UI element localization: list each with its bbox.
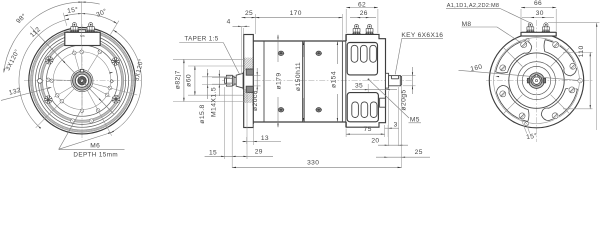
- M6 hole bottom: [80, 109, 84, 113]
- svg-text:62: 62: [358, 2, 366, 9]
- centerline vertical right view: [536, 20, 538, 142]
- dimension M14X1.5: [212, 76, 230, 78]
- dimension 15 deg lower: [522, 120, 527, 134]
- holes on d112 bolt circle: [80, 50, 84, 54]
- flange hub section dark lower: [246, 86, 253, 92]
- small plain bolts lower: [89, 119, 93, 123]
- holes on d132 bolt circle: [98, 50, 102, 54]
- extension radial 58.4: [110, 21, 119, 35]
- washer behind nut: [232, 76, 234, 85]
- body joint line right: [341, 41, 343, 122]
- terminal bolt A middle view: [352, 24, 360, 34]
- small arrow right side: [109, 72, 113, 74]
- dimension d160 diagonal: [459, 70, 579, 80]
- bolt circle d112: [53, 52, 111, 110]
- washer collar at taper end: [243, 72, 246, 89]
- terminal bolt A right view: [526, 23, 534, 32]
- axis centerline: [222, 80, 412, 82]
- dimension 4: [242, 28, 244, 71]
- svg-text:25: 25: [415, 149, 423, 156]
- dimension d179: [277, 35, 279, 62]
- right edge overall dimension: [548, 22, 600, 24]
- threaded shaft tip M14: [225, 78, 227, 83]
- svg-text:110: 110: [578, 45, 585, 57]
- cover latch detail: [380, 98, 386, 107]
- extension radial 90: [81, 1, 83, 32]
- keyway on shaft: [391, 78, 398, 80]
- radial centerlines diagonals: [551, 48, 570, 67]
- dimension 15 thread: [224, 87, 226, 159]
- vent hole position marks: [278, 51, 285, 55]
- dimension d60: [188, 65, 243, 67]
- dimension arc 3X120 left: [19, 20, 65, 126]
- dimension d150h11: [303, 41, 305, 57]
- dimension d154: [336, 41, 338, 64]
- terminal bridge detail: [79, 30, 86, 33]
- terminal block center line: [81, 32, 83, 45]
- svg-text:75: 75: [364, 126, 372, 133]
- left view: motor non-drive end view, center: [1, 1, 145, 158]
- dimension 29: [231, 87, 233, 168]
- svg-text:ø60: ø60: [185, 74, 192, 87]
- dimension 13: [246, 137, 248, 144]
- label M6 underline: [59, 149, 125, 151]
- flange screws M8: [569, 62, 577, 70]
- svg-text:M6: M6: [80, 34, 85, 38]
- inner circle: [46, 45, 117, 116]
- small diamond marker right axis: [110, 80, 113, 83]
- svg-text:ø15.8: ø15.8: [199, 104, 206, 123]
- extension radial 105.5: [63, 13, 67, 26]
- small bolt lower: [525, 122, 529, 126]
- dimension arc 98 deg: [4, 2, 100, 72]
- dimension 3: [387, 125, 389, 137]
- dimension arc 3X120 right: [110, 30, 141, 133]
- hub gray ring: [74, 73, 90, 89]
- mounting flange plate section: [244, 35, 254, 128]
- terminal bolt B middle view: [365, 24, 373, 34]
- terminal block right view: [521, 32, 556, 36]
- svg-text:TAPER 1:5: TAPER 1:5: [184, 35, 218, 42]
- dimension 75: [345, 129, 347, 138]
- lower brush cover: [347, 93, 378, 122]
- body joint line 1: [263, 41, 265, 122]
- tapered shaft section: [236, 73, 243, 88]
- leader M6 depth: [59, 111, 80, 149]
- dimension arc 15/30 deg: [64, 14, 117, 24]
- dimension 330 overall: [400, 158, 402, 168]
- hex nut on taper: [227, 75, 233, 86]
- svg-text:ø150h11: ø150h11: [295, 62, 302, 91]
- hex bolt on left axis: [38, 78, 42, 83]
- drive end housing outline: [346, 34, 385, 127]
- svg-text:66: 66: [534, 0, 542, 7]
- svg-text:ø179: ø179: [275, 72, 282, 89]
- svg-text:KEY 6X6X16: KEY 6X6X16: [401, 32, 443, 39]
- svg-text:29: 29: [255, 148, 263, 155]
- inner flange circle: [38, 37, 125, 124]
- svg-text:170: 170: [290, 10, 302, 17]
- dimension 35: [367, 84, 369, 92]
- terminal bolt B left view: [86, 23, 95, 33]
- flange hatch lower: [244, 89, 246, 91]
- svg-text:13: 13: [261, 135, 269, 142]
- small hole near top: [526, 39, 529, 42]
- outer band serration ticks: [131, 80, 133, 82]
- kidney vent slots x4 (comma shaped): [544, 40, 576, 76]
- terminal block left view: [65, 32, 100, 45]
- svg-text:330: 330: [307, 160, 319, 167]
- body joint double line: [302, 41, 304, 122]
- gray ring (yoke): [41, 40, 122, 121]
- dimension 20: [387, 91, 389, 146]
- dimension 132 leader: [1, 88, 51, 101]
- dimension 30: [522, 17, 554, 19]
- motor body outline: [253, 41, 346, 122]
- hole left on horizontal axis: [50, 79, 54, 83]
- shaft circle with keyway: [533, 77, 541, 85]
- yoke/bracket joint: [345, 34, 347, 127]
- upper cover vent slots: [351, 45, 358, 62]
- lower cover vent slots: [352, 102, 359, 118]
- dimension line d112 diagonal: [30, 26, 113, 114]
- through-bolt with serrated washer x4: [112, 58, 120, 66]
- svg-text:35: 35: [355, 82, 363, 89]
- middle view: side section: [173, 2, 443, 169]
- gland notch left: [527, 78, 529, 82]
- gland notch right: [543, 78, 545, 82]
- svg-text:M14X1.5: M14X1.5: [211, 87, 218, 117]
- dimension d82j7: [173, 58, 245, 60]
- bearing boss circle: [518, 62, 556, 100]
- flange circle: [35, 34, 128, 127]
- svg-text:ø154: ø154: [331, 71, 338, 88]
- terminal bolt B right view: [542, 23, 550, 32]
- svg-text:3: 3: [394, 121, 398, 128]
- svg-text:30: 30: [536, 10, 544, 17]
- keyway tab: [80, 69, 83, 72]
- right view: drive end view: [446, 0, 600, 142]
- flange rim circle: [494, 38, 580, 124]
- svg-text:M6: M6: [90, 143, 100, 150]
- dimension 62: [345, 9, 347, 33]
- outer housing circle ~d206: [29, 27, 135, 133]
- hole at 0 deg on d160: [578, 78, 583, 83]
- dimension d20g5: [402, 75, 416, 77]
- dimension d20c8: [254, 75, 261, 77]
- outer gray band ring: [32, 30, 133, 131]
- outer housing circle right view: [489, 33, 583, 127]
- dimension d15.8: [202, 76, 231, 78]
- hub outer circle: [71, 70, 93, 92]
- svg-text:15: 15: [209, 149, 217, 156]
- output shaft collar: [386, 73, 389, 88]
- svg-text:26: 26: [360, 10, 368, 17]
- upper brush cover: [347, 43, 377, 75]
- svg-text:DEPTH 15mm: DEPTH 15mm: [73, 151, 118, 158]
- top dimension row 25 and 170: [241, 27, 243, 74]
- shaft end chamfer: [400, 76, 401, 86]
- tapered shaft end knurled: [78, 77, 86, 85]
- shaft neck: [234, 77, 236, 84]
- output shaft d20: [389, 76, 401, 86]
- centerline horizontal: [24, 80, 141, 82]
- svg-text:ø82j7: ø82j7: [174, 70, 181, 89]
- flange hatch upper: [244, 58, 246, 60]
- svg-text:20: 20: [371, 137, 379, 144]
- terminal bolt A left view: [70, 23, 79, 33]
- svg-text:25: 25: [245, 10, 253, 17]
- flange hub section dark upper: [246, 69, 253, 75]
- dimension 110: [563, 51, 593, 53]
- dimension 66: [520, 9, 522, 31]
- centerline vertical: [81, 24, 83, 140]
- boss circle d110: [509, 53, 564, 108]
- centerline horizontal right view: [486, 80, 594, 82]
- dimension 25 shaft: [401, 86, 403, 158]
- dimension 26: [350, 17, 376, 19]
- svg-text:4: 4: [227, 18, 231, 25]
- label M5 with leader dot: [368, 79, 370, 81]
- hub gland ring: [530, 74, 543, 87]
- svg-text:ø20c8: ø20c8: [252, 90, 259, 111]
- radial spokes / hole centerlines: [81, 48, 83, 69]
- bearing circle: [522, 66, 550, 94]
